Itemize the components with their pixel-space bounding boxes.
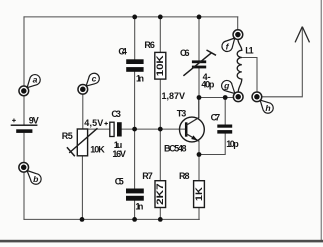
svg-text:1n: 1n bbox=[135, 201, 143, 211]
wire C4 column top bbox=[134, 17, 136, 59]
balloon b bbox=[27, 171, 41, 185]
resistor R8 bbox=[194, 181, 205, 208]
battery plus sign bbox=[12, 119, 16, 123]
variable capacitor C6 bbox=[183, 50, 216, 76]
svg-text:9V: 9V bbox=[29, 116, 39, 126]
junction base C4 bbox=[132, 127, 137, 132]
junction collector bbox=[197, 95, 202, 100]
wire b to bottom rail bbox=[23, 172, 25, 220]
balloon g bbox=[222, 80, 235, 93]
balloon a bbox=[27, 75, 40, 88]
balloon c bbox=[86, 73, 99, 86]
svg-text:L1: L1 bbox=[245, 45, 254, 55]
svg-text:40p: 40p bbox=[201, 80, 215, 90]
balloon h bbox=[260, 100, 273, 113]
page bottom dark band bbox=[0, 240, 323, 243]
potentiometer R5 bbox=[67, 128, 98, 156]
capacitor C4 bbox=[126, 59, 143, 71]
terminal g bbox=[233, 92, 243, 102]
wire C7 bottom bbox=[199, 134, 225, 155]
antenna arrow bbox=[295, 27, 309, 43]
junction bottom rail C5 bbox=[132, 217, 137, 222]
wire C6 column top bbox=[198, 17, 200, 61]
svg-text:C6: C6 bbox=[180, 48, 190, 58]
svg-text:C3: C3 bbox=[111, 109, 121, 119]
terminal a bbox=[19, 86, 29, 96]
wire bottom rail bbox=[24, 218, 199, 220]
wire C4 to C5 through base bbox=[134, 72, 136, 189]
resistor R7 bbox=[155, 181, 166, 208]
svg-text:16V: 16V bbox=[112, 149, 126, 159]
junction bottom rail R7 bbox=[158, 217, 163, 222]
svg-text:C4: C4 bbox=[118, 47, 127, 57]
battery plate thick bbox=[16, 129, 32, 133]
junction base R6 bbox=[158, 127, 163, 132]
svg-text:C5: C5 bbox=[115, 176, 124, 186]
svg-text:1n: 1n bbox=[136, 73, 144, 83]
capacitor C7 bbox=[217, 125, 232, 134]
junction emitter bbox=[197, 152, 202, 157]
terminal h bbox=[252, 92, 262, 102]
wire R8 to rail bbox=[198, 208, 200, 220]
wire emitter to R8 bbox=[198, 141, 200, 181]
inductor L1 bbox=[237, 39, 242, 92]
wire a to battery bbox=[23, 96, 25, 125]
svg-text:BC548: BC548 bbox=[164, 143, 187, 153]
capacitor C3 bbox=[104, 122, 121, 137]
balloon f bbox=[222, 38, 235, 52]
wire R7 to rail bbox=[159, 208, 161, 220]
wire R5 wiper to C3 bbox=[83, 128, 110, 130]
terminal b bbox=[19, 162, 29, 172]
svg-text:R6: R6 bbox=[144, 40, 155, 50]
svg-text:R5: R5 bbox=[62, 131, 73, 141]
wire rail to f bbox=[237, 17, 239, 30]
svg-text:2K7: 2K7 bbox=[155, 183, 165, 205]
terminal f bbox=[233, 30, 243, 40]
junction bottom rail R5 bbox=[80, 217, 85, 222]
svg-text:R8: R8 bbox=[179, 171, 190, 181]
wire C3 to base node bbox=[122, 128, 187, 130]
svg-text:10K: 10K bbox=[155, 55, 165, 77]
wire h to antenna bbox=[262, 28, 303, 97]
svg-text:R7: R7 bbox=[142, 171, 153, 181]
wire top rail bbox=[24, 16, 238, 18]
wire L1 tap to h bbox=[242, 58, 257, 93]
wire battery column top bbox=[23, 17, 25, 86]
transistor T3 bbox=[180, 98, 205, 142]
svg-text:b: b bbox=[33, 174, 38, 184]
svg-text:C7: C7 bbox=[211, 113, 221, 123]
svg-text:10K: 10K bbox=[90, 144, 105, 154]
junction C7 top bbox=[223, 95, 228, 100]
svg-text:h: h bbox=[265, 103, 270, 113]
wire C5 to rail bbox=[134, 201, 136, 220]
battery plate long bbox=[11, 125, 38, 126]
wire R6 to R7 through base bbox=[159, 79, 161, 181]
svg-text:c: c bbox=[92, 73, 97, 83]
svg-text:a: a bbox=[33, 75, 38, 85]
wire R5 bottom to rail bbox=[81, 156, 83, 220]
svg-text:1K: 1K bbox=[194, 187, 204, 202]
junction top rail R6 bbox=[158, 15, 163, 20]
wire R6 column top bbox=[159, 17, 161, 53]
resistor R6 bbox=[155, 52, 166, 79]
junction top rail C4 bbox=[132, 15, 137, 20]
svg-text:10p: 10p bbox=[226, 139, 239, 149]
svg-text:1,87V: 1,87V bbox=[162, 91, 186, 101]
svg-text:g: g bbox=[223, 81, 230, 91]
capacitor C5 bbox=[126, 189, 144, 201]
terminal c bbox=[78, 84, 88, 94]
svg-text:T3: T3 bbox=[177, 108, 187, 118]
junction top rail C6 bbox=[197, 15, 202, 20]
wire battery to b bbox=[23, 133, 25, 163]
wire collector to g bbox=[199, 97, 234, 99]
page right edge line bbox=[320, 0, 322, 241]
svg-text:4,5V: 4,5V bbox=[84, 118, 103, 128]
wire c down to R5 bbox=[82, 94, 84, 129]
wire C6 to collector bbox=[198, 68, 200, 97]
wire C7 drop bbox=[224, 98, 226, 125]
